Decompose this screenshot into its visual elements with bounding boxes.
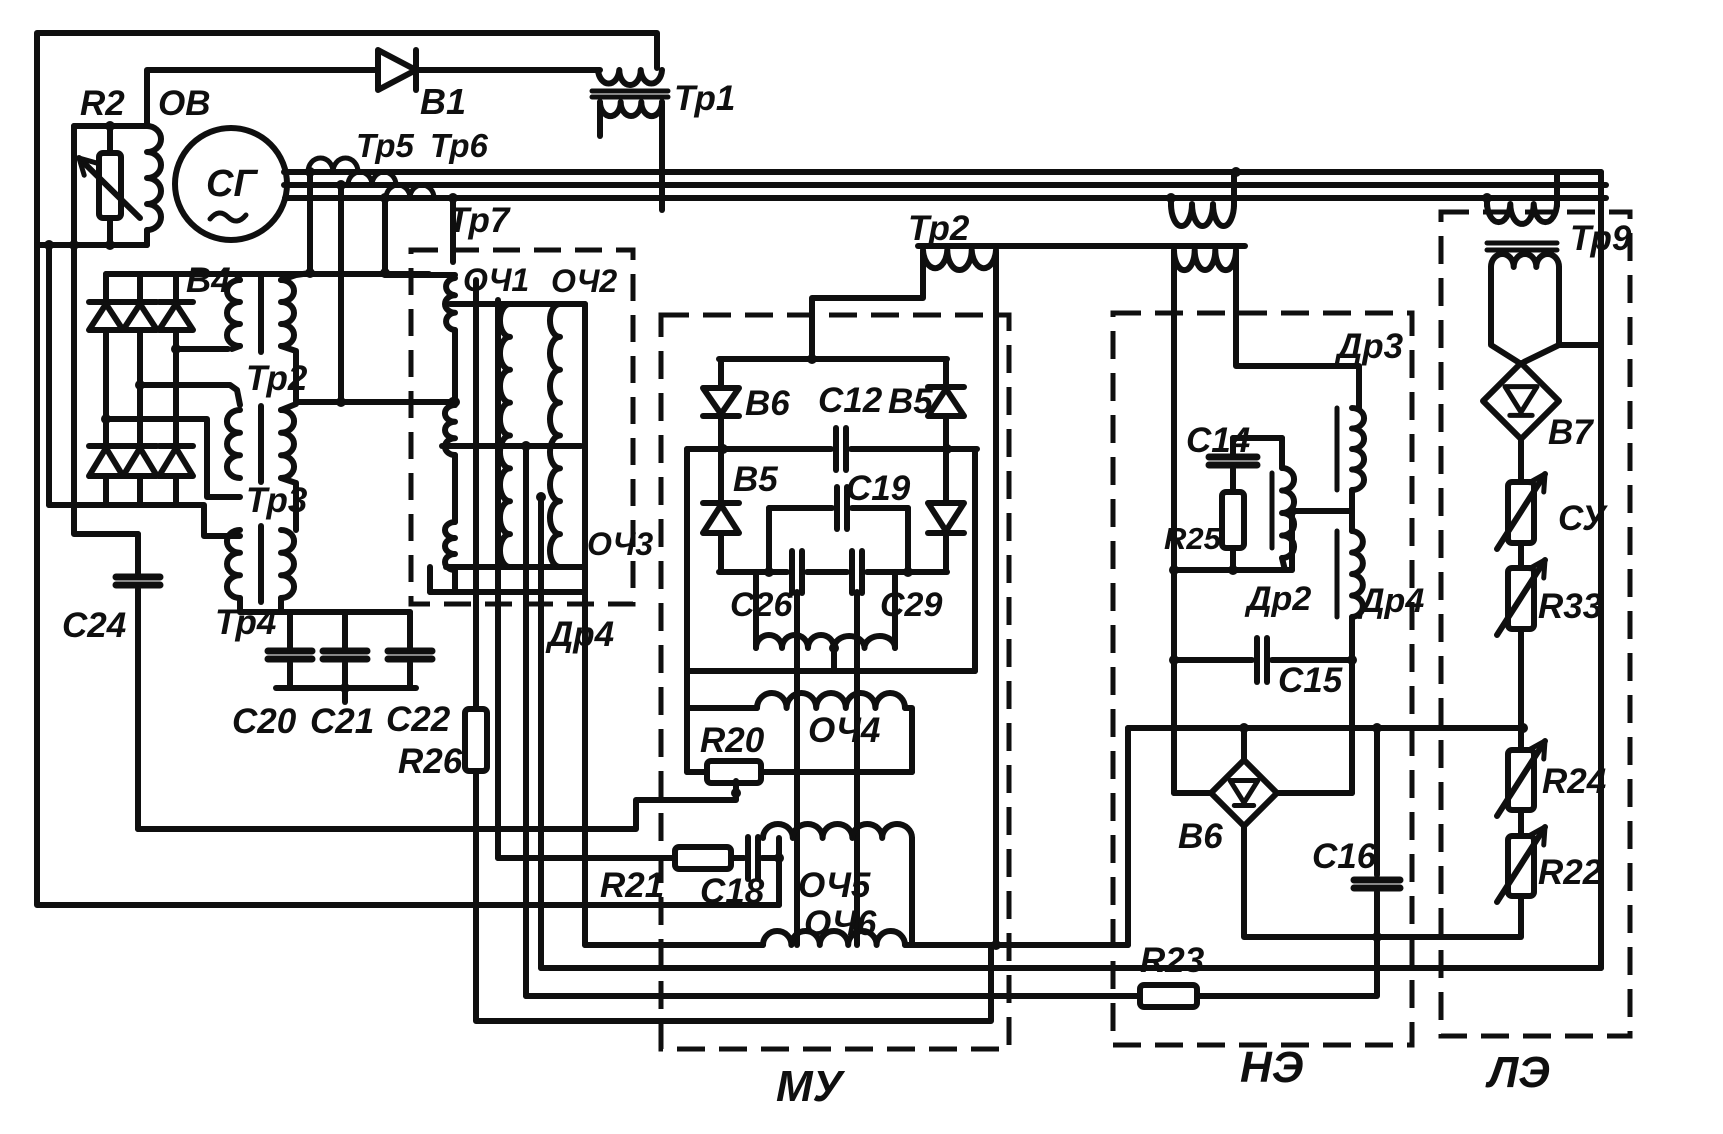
Tp8 secondary — [1174, 250, 1236, 270]
wire from OB row down — [46, 245, 52, 505]
Tp9 secondary — [1491, 254, 1559, 267]
variable resistor R22 — [1518, 810, 1524, 836]
svg-text:ОВ: ОВ — [158, 84, 211, 123]
center coil pair — [753, 572, 759, 648]
svg-text:R21: R21 — [600, 866, 664, 905]
svg-text:Тр1: Тр1 — [674, 79, 735, 118]
svg-text:СГ: СГ — [206, 163, 258, 205]
svg-text:ОЧ5: ОЧ5 — [798, 866, 871, 905]
choke Dr2 — [1270, 473, 1275, 548]
transformer Tp2 windings — [227, 280, 240, 346]
NE secondary left lead — [1171, 252, 1177, 793]
wire B1 feed — [147, 70, 378, 126]
right vertical from bus — [1598, 172, 1604, 968]
svg-text:Др4: Др4 — [1357, 582, 1424, 620]
OCH1 winding — [500, 304, 510, 567]
Tp2 MU secondary — [923, 250, 996, 270]
MU dashed box — [661, 315, 1009, 1049]
winding OCH6 — [763, 931, 905, 945]
choke Dr3 — [1335, 408, 1340, 490]
svg-text:В4: В4 — [186, 261, 231, 300]
resistor R23 — [1140, 985, 1197, 1007]
wire bottom rail to Tp4 — [176, 505, 240, 536]
wire y858 to R21 — [498, 855, 675, 861]
svg-text:С12: С12 — [818, 381, 883, 420]
svg-text:Тр5: Тр5 — [356, 127, 414, 164]
svg-text:С19: С19 — [846, 469, 911, 508]
capacitor C18 — [731, 855, 744, 861]
resistor R26 — [465, 709, 487, 771]
svg-text:Тр2: Тр2 — [908, 209, 970, 248]
variable resistor CU — [1518, 439, 1524, 482]
transformer Tp1 — [598, 70, 662, 85]
svg-text:R23: R23 — [1140, 941, 1205, 980]
capacitor C14 — [1233, 435, 1282, 441]
svg-text:Тр7: Тр7 — [448, 201, 511, 240]
variable resistor R24 — [1518, 728, 1524, 750]
NE rail y570 — [1174, 567, 1292, 573]
Tp7 winding column — [385, 272, 455, 278]
svg-text:R20: R20 — [700, 721, 765, 760]
svg-text:R2: R2 — [80, 84, 125, 123]
wire — [416, 67, 600, 73]
long wire y996 with R23 — [526, 993, 1140, 999]
svg-text:ОЧ1: ОЧ1 — [463, 262, 529, 298]
Tp9 core — [1487, 241, 1557, 246]
svg-text:ОЧ4: ОЧ4 — [808, 711, 880, 750]
capacitor C21 — [342, 612, 348, 651]
svg-text:Др2: Др2 — [1244, 580, 1311, 618]
Tp8 primary from bus — [1166, 193, 1176, 203]
svg-text:В1: В1 — [420, 81, 466, 122]
svg-text:Тр2: Тр2 — [246, 359, 308, 398]
svg-text:МУ: МУ — [776, 1062, 846, 1111]
NE secondary right lead — [1236, 252, 1359, 408]
bridge B6 — [1241, 728, 1247, 761]
Tp9 primary — [1482, 193, 1492, 203]
thread wires — [794, 592, 800, 945]
NE rail y728 — [1128, 725, 1523, 731]
caps C20 C21 C22 rail — [240, 609, 410, 615]
CT coil Tp5b on line2 — [348, 172, 396, 185]
svg-text:С14: С14 — [1186, 421, 1250, 460]
svg-text:R26: R26 — [398, 742, 463, 781]
svg-text:ОЧ2: ОЧ2 — [551, 263, 617, 299]
diode B5 left bottom — [703, 500, 739, 506]
MU rail y449 with C12 — [687, 446, 831, 452]
svg-text:С24: С24 — [62, 606, 126, 645]
winding OCH4 — [757, 693, 905, 708]
MU top rail — [719, 356, 947, 362]
svg-text:Тр3: Тр3 — [246, 481, 308, 520]
B4 phase tap wires — [176, 346, 228, 352]
capacitor C24 — [116, 574, 160, 581]
capacitor C16 — [1374, 728, 1380, 875]
transformer Tp2 (MU feed) core bar — [918, 243, 1245, 249]
B6 bottom wire — [1244, 826, 1520, 937]
OCH2 winding — [550, 304, 560, 567]
bridge B7 — [1483, 363, 1559, 439]
svg-text:Тр4: Тр4 — [215, 603, 276, 642]
svg-text:ЛЭ: ЛЭ — [1485, 1048, 1550, 1097]
diode B5 right bottom — [928, 503, 964, 531]
Dr3/Dr4 mid tap — [1292, 508, 1352, 514]
long wire y968 — [541, 965, 1601, 971]
winding OCH5 — [763, 824, 912, 838]
svg-text:R33: R33 — [1538, 587, 1603, 626]
rectifier B4 top rail — [106, 271, 429, 277]
svg-text:В6: В6 — [1178, 817, 1223, 856]
svg-text:В5: В5 — [733, 460, 778, 499]
svg-text:В5: В5 — [888, 382, 933, 421]
generator CG circle — [175, 128, 287, 240]
svg-text:С16: С16 — [1312, 837, 1377, 876]
diode B5 right top — [943, 359, 949, 387]
svg-text:С21: С21 — [310, 702, 374, 741]
outer frame wire — [37, 33, 779, 905]
svg-text:С22: С22 — [386, 700, 451, 739]
capacitor C15 — [1174, 657, 1252, 663]
transformer Tp3 windings — [227, 410, 240, 478]
R2 loop wires — [74, 123, 147, 129]
svg-text:ОЧ6: ОЧ6 — [804, 904, 877, 943]
vertical taps from bus — [307, 172, 313, 273]
core lines — [473, 280, 479, 709]
resistor R21 — [675, 847, 731, 869]
B4 top diode row — [103, 274, 109, 302]
capacitor C20 — [287, 612, 293, 651]
capacitor C22 — [407, 612, 413, 651]
svg-text:R24: R24 — [1542, 762, 1606, 801]
diode B6 left — [718, 359, 724, 388]
svg-text:С18: С18 — [700, 872, 765, 911]
B4 bottom diode row — [103, 419, 109, 446]
bus line 1 — [284, 169, 1601, 175]
OB field winding — [147, 126, 161, 230]
svg-text:В6: В6 — [745, 384, 790, 423]
diode B1 — [378, 50, 416, 90]
transformer Tp4 windings — [227, 530, 240, 598]
svg-text:НЭ: НЭ — [1240, 1043, 1303, 1092]
svg-text:Др3: Др3 — [1334, 327, 1404, 366]
svg-text:С26: С26 — [730, 586, 793, 624]
dashed box OCH1-OCH3 — [411, 250, 633, 604]
svg-text:С29: С29 — [880, 586, 942, 624]
svg-text:С20: С20 — [232, 702, 297, 741]
LE dashed box — [1441, 212, 1630, 1036]
OCH interior rails — [450, 301, 585, 307]
svg-text:R22: R22 — [1538, 853, 1603, 892]
interior vert wires down — [523, 446, 529, 996]
bus line 3 — [285, 195, 1606, 201]
R2 resistor — [99, 153, 121, 218]
junction to border wire — [776, 858, 782, 905]
wire from OCH6 up — [1125, 728, 1131, 945]
inner loop C19 — [769, 505, 832, 511]
bus line 2 — [284, 182, 1606, 188]
svg-text:Др4: Др4 — [545, 615, 614, 654]
svg-text:R25: R25 — [1164, 521, 1222, 556]
svg-text:С15: С15 — [1278, 661, 1343, 700]
choke Dr4 — [1335, 531, 1340, 617]
svg-text:ОЧ3: ОЧ3 — [587, 526, 653, 562]
variable resistor R33 — [1518, 543, 1524, 568]
svg-text:В7: В7 — [1548, 413, 1594, 452]
CT coil Tp5 on line1 — [308, 158, 358, 172]
long wire from C24/R20 wiper — [138, 793, 736, 829]
NE dashed box — [1113, 313, 1412, 1045]
CT coil Tp6 on line3 — [386, 185, 434, 198]
outer loop verticals — [684, 449, 690, 772]
rail y572 with C26 C29 — [719, 569, 787, 575]
rail y402 — [296, 399, 455, 405]
resistor R25 — [1222, 492, 1244, 548]
resistor R20 — [707, 761, 761, 783]
svg-text:Тр6: Тр6 — [430, 127, 488, 164]
